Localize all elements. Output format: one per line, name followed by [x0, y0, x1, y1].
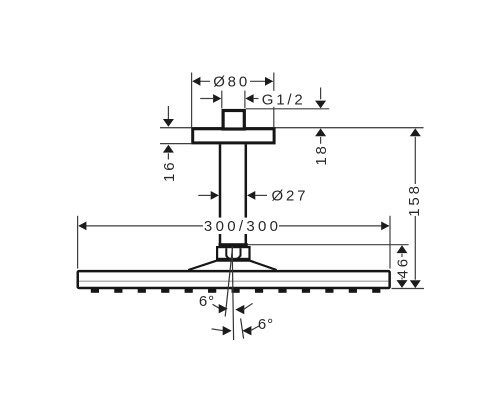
- dimension 46: [248, 245, 425, 289]
- svg-text:18: 18: [313, 143, 330, 165]
- pipe left wall: [219, 144, 222, 243]
- svg-text:6°: 6°: [199, 293, 215, 310]
- spray 6deg right tick: [241, 319, 244, 339]
- dimension 18: [246, 88, 329, 144]
- angle 6deg lower annotation: [212, 329, 224, 331]
- svg-text:Ø80: Ø80: [213, 73, 250, 90]
- trapezoid mount base: [188, 261, 276, 270]
- svg-text:16: 16: [161, 160, 178, 182]
- ceiling plate (escutcheon): [193, 129, 274, 143]
- spray axis line: [232, 247, 233, 341]
- svg-text:158: 158: [406, 183, 423, 216]
- head inner face line: [79, 280, 389, 282]
- svg-text:G1/2: G1/2: [262, 91, 306, 108]
- pipe right wall: [245, 144, 248, 243]
- shower head body: [78, 271, 390, 288]
- nut inner left facet: [225, 248, 227, 256]
- dimension O27: [198, 194, 267, 196]
- nozzle row: [91, 288, 381, 293]
- nut inner right facet: [240, 248, 242, 256]
- dimension 158: [414, 137, 416, 280]
- svg-text:Ø27: Ø27: [272, 187, 309, 204]
- dimension G1/2: [200, 91, 258, 109]
- ball joint arc: [227, 256, 241, 260]
- dimension O80: [192, 73, 274, 128]
- svg-text:300/300: 300/300: [204, 218, 281, 235]
- dimension 300/300: [78, 216, 390, 269]
- pipe end flange: [219, 243, 248, 246]
- connector nut: [217, 247, 249, 259]
- svg-text:6°: 6°: [258, 316, 274, 333]
- spray 6deg left line: [225, 247, 232, 317]
- G1/2 thread stub: [223, 111, 244, 130]
- ceiling line: [160, 127, 424, 129]
- dimension 16: [160, 106, 191, 160]
- svg-text:46: 46: [394, 256, 411, 278]
